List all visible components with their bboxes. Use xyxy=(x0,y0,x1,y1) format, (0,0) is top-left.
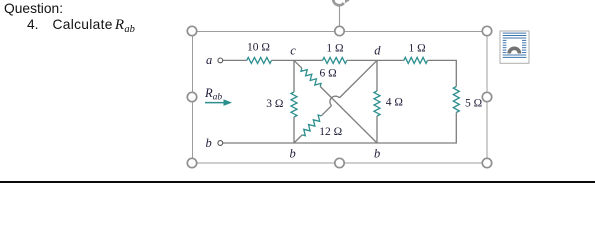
selection handle bottom-middle xyxy=(335,158,344,167)
selection handle top-left xyxy=(187,26,196,35)
wire: 5-ohm to bottom rail xyxy=(377,113,456,144)
resistor R 5 ohm xyxy=(453,87,459,113)
wire: bottom rail b-left to b-right xyxy=(294,142,377,144)
wire: node d down to 4-ohm xyxy=(376,60,378,91)
resistor R 10 ohm xyxy=(247,57,272,63)
wire: hop to 12-ohm xyxy=(321,106,331,116)
wire: b terminal to bottom node b xyxy=(223,142,294,144)
terminal b xyxy=(218,141,223,146)
R_ab arrow xyxy=(205,99,232,106)
selection handle top-middle xyxy=(335,26,344,35)
selection handle top-right xyxy=(482,26,491,35)
selection border xyxy=(193,32,488,164)
wire: node c down to 3-ohm xyxy=(293,60,295,92)
wire: a terminal to 10-ohm xyxy=(223,59,247,61)
wire: 6-ohm to bottom-right node b xyxy=(320,87,377,144)
wire: 4-ohm to bottom node b xyxy=(376,116,378,143)
svg-text:1 Ω: 1 Ω xyxy=(409,43,426,55)
svg-text:c: c xyxy=(290,43,296,57)
svg-text:12 Ω: 12 Ω xyxy=(319,126,342,138)
wire: 1-ohm to node d xyxy=(347,59,377,61)
selection handle bottom-left xyxy=(187,158,196,167)
selection handle right-middle xyxy=(482,92,491,101)
crossover hop xyxy=(330,96,340,106)
layout options button xyxy=(500,31,529,63)
rotation handle stem xyxy=(339,6,341,31)
svg-text:a: a xyxy=(206,53,212,67)
svg-text:5 Ω: 5 Ω xyxy=(465,97,482,109)
selection handle bottom-right xyxy=(482,158,491,167)
page bottom rule xyxy=(0,181,595,183)
rotation handle xyxy=(333,0,349,5)
selection handle left-middle xyxy=(187,92,196,101)
resistor R 4 ohm xyxy=(374,91,380,116)
wire: node d to right 1-ohm xyxy=(377,59,404,61)
svg-text:6 Ω: 6 Ω xyxy=(320,68,337,80)
wire: 1-ohm to top-right corner xyxy=(428,60,457,86)
wire: 10-ohm to node c xyxy=(272,59,295,61)
terminal a xyxy=(218,58,223,63)
svg-text:b: b xyxy=(374,146,380,160)
wire: 12-ohm to bottom-left node b xyxy=(294,135,302,143)
wire: node c to 6-ohm xyxy=(294,60,302,68)
wire: node c to 1-ohm xyxy=(294,59,323,61)
resistor R 1 ohm (c-d) xyxy=(323,57,347,63)
svg-text:Rab: Rab xyxy=(204,86,222,103)
svg-text:b: b xyxy=(290,146,296,160)
wire: 3-ohm to bottom node b xyxy=(293,117,295,143)
resistor R 1 ohm (right) xyxy=(404,57,428,63)
resistor R 3 ohm xyxy=(291,92,297,117)
svg-text:b: b xyxy=(206,136,212,150)
resistor R 6 ohm xyxy=(301,68,321,86)
svg-text:4 Ω: 4 Ω xyxy=(386,97,403,109)
resistor R 12 ohm xyxy=(302,115,321,136)
svg-text:10 Ω: 10 Ω xyxy=(247,42,270,54)
wire: node d to crossover hop xyxy=(339,60,377,97)
svg-text:1 Ω: 1 Ω xyxy=(326,42,343,54)
svg-text:d: d xyxy=(374,43,381,57)
svg-text:3 Ω: 3 Ω xyxy=(266,98,283,110)
